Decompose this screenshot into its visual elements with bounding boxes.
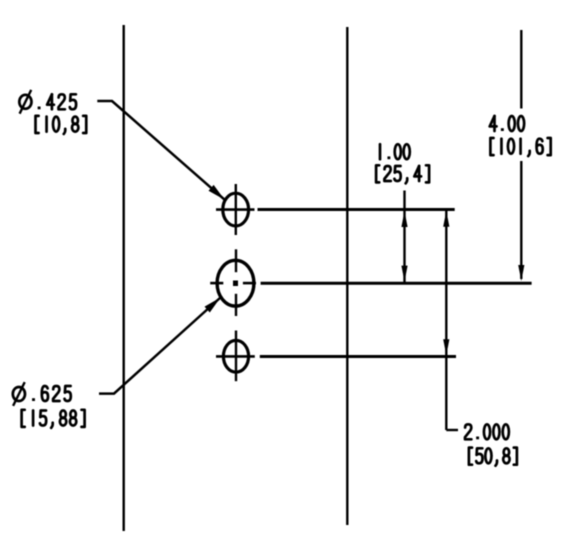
leader LD1 arrowhead: [208, 185, 224, 200]
hole H3 extension line right: [260, 355, 456, 358]
dimension D2 arrowhead down: [443, 339, 449, 355]
label T2 text .625: [32, 386, 71, 401]
dimension D3 text value 4.00: [490, 116, 524, 131]
hole H2 extension line right: [261, 282, 532, 285]
label T1 text metric [10,8]: [36, 116, 87, 134]
label T2 text metric [15,88]: [22, 410, 85, 428]
leader LD2 arrowhead: [205, 298, 221, 313]
label T1 text .425: [38, 94, 76, 109]
hole H1 extension line right: [258, 208, 455, 211]
hole H1 centerline horizontal: [216, 208, 255, 211]
dimension D2 leader jog to text: [446, 429, 458, 431]
dimension D2 text metric [50,8]: [469, 448, 517, 466]
dimension D1 text value 1.00: [380, 144, 410, 159]
dimension D1 (1.00) line: [403, 191, 405, 283]
dimension D1 text metric [25,4]: [376, 165, 429, 183]
hole H2 (middle, dia .625) circle: [217, 260, 254, 306]
hole H2 centerline horizontal left segment: [210, 282, 223, 285]
hole H3 (bottom, dia .425) circle: [223, 340, 248, 372]
label T1 diameter symbol: [19, 90, 31, 114]
hole H2 centerline horizontal right segment: [243, 282, 256, 285]
part edge line left vertical: [122, 25, 124, 531]
hole H3 centerline horizontal: [216, 355, 255, 358]
hole H2 centerline vertical top segment: [235, 249, 237, 272]
dimension D2 text value 2.000: [465, 424, 509, 439]
hole H1 (top, dia .425) circle: [223, 193, 249, 226]
dimension D1 arrowhead up: [401, 211, 407, 227]
dimension D2 arrowhead up: [443, 211, 449, 227]
hole H2 center dot: [233, 281, 238, 287]
hole H2 centerline vertical bottom segment: [235, 294, 237, 316]
dimension D3 (4.00) line lower segment: [520, 161, 522, 279]
dimension D2 (2.000) line: [445, 211, 447, 430]
dimension D3 arrowhead down: [518, 265, 524, 281]
leader LD2 for hole H2 polyline: [99, 298, 221, 394]
dimension D3 (4.00) line upper segment: [520, 30, 522, 109]
dimension D1 arrowhead down: [401, 266, 407, 282]
label T2 diameter symbol: [13, 382, 25, 406]
hole H3 centerline vertical: [235, 331, 237, 382]
dimension D3 text metric [101,6]: [490, 138, 550, 156]
hole H1 centerline vertical: [235, 184, 237, 235]
part edge line middle vertical: [346, 27, 348, 525]
leader LD1 for hole H1 polyline: [97, 101, 224, 200]
